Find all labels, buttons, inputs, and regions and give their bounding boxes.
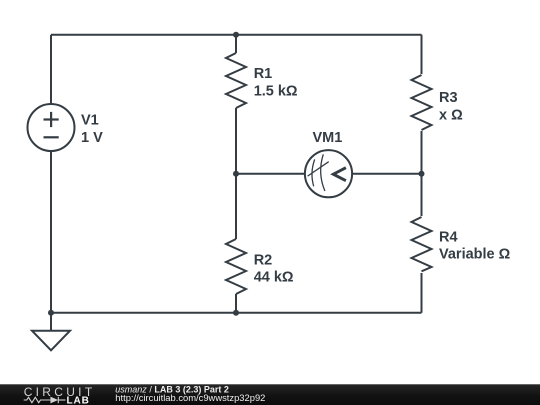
svg-text:V1: V1 [81, 112, 99, 128]
svg-text:R2: R2 [254, 252, 273, 268]
svg-text:R1: R1 [254, 66, 273, 82]
svg-text:LAB: LAB [67, 396, 90, 405]
svg-text:1 V: 1 V [81, 130, 103, 146]
svg-text:1.5 kΩ: 1.5 kΩ [254, 84, 298, 100]
svg-text:44 kΩ: 44 kΩ [254, 270, 294, 286]
svg-text:x Ω: x Ω [439, 107, 463, 123]
svg-text:R3: R3 [439, 90, 458, 106]
svg-text:R4: R4 [439, 230, 458, 246]
svg-text:http://circuitlab.com/c9wwstzp: http://circuitlab.com/c9wwstzp32p92 [115, 392, 265, 403]
svg-text:VM1: VM1 [313, 130, 343, 146]
svg-text:Variable Ω: Variable Ω [439, 247, 511, 263]
